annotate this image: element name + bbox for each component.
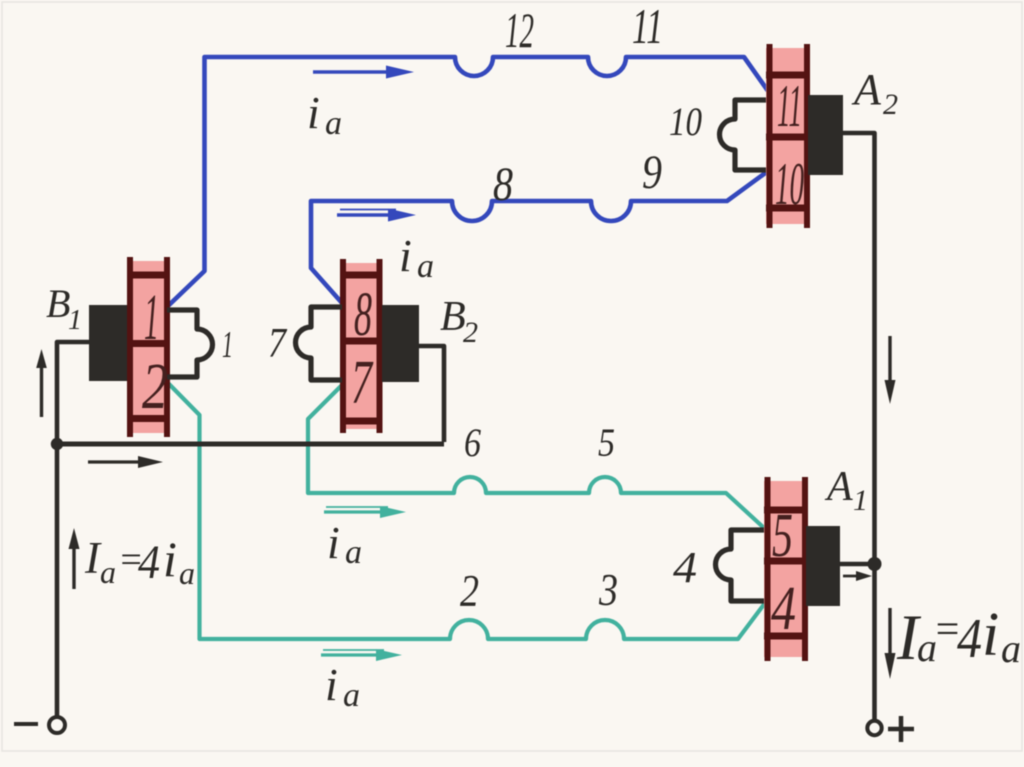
svg-text:4: 4 — [771, 575, 796, 643]
brush B2 — [382, 305, 419, 382]
label 11 — [632, 0, 663, 54]
svg-text:9: 9 — [642, 146, 662, 199]
arrow ia on wire 8 — [337, 209, 416, 222]
label 2 — [460, 566, 479, 616]
svg-text:5: 5 — [598, 420, 615, 465]
svg-text:6: 6 — [464, 420, 481, 465]
coil label 10 — [669, 99, 702, 144]
svg-text:i: i — [327, 517, 340, 568]
coil bracket 7 (left of B2) — [296, 307, 343, 380]
svg-text:A: A — [824, 464, 853, 510]
svg-text:i: i — [982, 601, 999, 669]
svg-text:4: 4 — [138, 536, 160, 589]
wire: black lead from brush B2 to bus — [419, 346, 444, 442]
arrow ia on wire 2 — [321, 649, 402, 661]
wire: blue winding coil 12-11 from segment 1 to segment 11 — [169, 57, 768, 305]
brush A1 — [806, 526, 840, 606]
label 3 — [598, 565, 618, 615]
svg-text:2: 2 — [460, 566, 479, 616]
arrow right on bus — [88, 456, 163, 468]
svg-text:1: 1 — [68, 305, 82, 336]
arrow down on right vertical (upper) — [885, 336, 896, 404]
brush A2 — [808, 95, 843, 175]
label A2 — [851, 65, 898, 121]
svg-text:i: i — [399, 230, 412, 281]
label A1 — [824, 464, 868, 517]
junction node at bus below B1 — [51, 438, 63, 450]
arrow down for Ia=4ia (right) — [885, 608, 896, 679]
junction node on right vertical at A1 — [868, 557, 882, 571]
coil bracket 4 (left of A1) — [716, 530, 765, 601]
positive terminal — [867, 721, 881, 735]
arrow up beside B1 lead — [36, 349, 47, 417]
wire: teal winding coil 6-5 from segment 7 to segment 5 — [308, 385, 763, 527]
commutator B2 segments strip — [340, 259, 382, 433]
svg-text:11: 11 — [632, 0, 663, 54]
label minus — [14, 722, 38, 726]
svg-text:a: a — [100, 554, 116, 590]
label ia (top) — [307, 87, 342, 142]
svg-text:2: 2 — [142, 350, 168, 423]
label B2 — [440, 294, 478, 349]
svg-text:4: 4 — [673, 543, 697, 592]
arrow right at A1 lead — [843, 571, 872, 581]
arrow ia on wire 12 — [313, 66, 414, 79]
svg-text:A: A — [851, 65, 882, 114]
svg-text:5: 5 — [772, 502, 793, 570]
arrow ia on wire 6 — [324, 506, 406, 518]
svg-text:12: 12 — [505, 2, 534, 58]
svg-text:1: 1 — [144, 281, 159, 354]
svg-text:a: a — [345, 534, 362, 571]
label Ia=4ia (left) — [84, 531, 195, 591]
svg-text:a: a — [343, 677, 360, 714]
wire: black lead from brush A2 down to positive terminal — [843, 133, 875, 721]
label 9 — [642, 146, 662, 199]
label Ia=4ia (right) — [896, 601, 1021, 674]
svg-text:2: 2 — [463, 316, 478, 349]
svg-text:11: 11 — [777, 73, 802, 139]
label ia (second) — [399, 230, 434, 285]
svg-text:a: a — [179, 555, 195, 591]
coil label 4 — [673, 543, 697, 592]
brush B1 — [89, 305, 127, 381]
segment number 11 (A2 top) — [777, 73, 802, 139]
segment number 8 (B2 top) — [354, 281, 372, 349]
commutator A1 segments strip — [764, 477, 808, 661]
svg-text:7: 7 — [268, 321, 288, 367]
label 5 — [598, 420, 615, 465]
wire: black lead from brush B1 to negative terminal — [57, 342, 90, 716]
wire: black bottom bus — [55, 442, 444, 447]
svg-text:B: B — [440, 294, 466, 340]
svg-text:8: 8 — [354, 281, 372, 349]
coil label 1 — [222, 324, 233, 366]
label 6 — [464, 420, 481, 465]
svg-text:1: 1 — [222, 324, 233, 366]
segment number 10 (A2 bottom) — [775, 151, 804, 217]
coil label 7 — [268, 321, 288, 367]
svg-text:2: 2 — [883, 88, 898, 121]
svg-text:i: i — [163, 531, 177, 587]
svg-text:i: i — [325, 659, 338, 710]
svg-text:8: 8 — [493, 158, 513, 211]
label ia (fourth) — [325, 659, 360, 714]
svg-text:i: i — [307, 87, 320, 138]
segment number 2 (B1 bottom) — [142, 350, 168, 423]
coil bracket 10 (left of A2) — [720, 100, 766, 170]
segment number 7 (B2 bottom) — [351, 349, 374, 417]
arrow up for Ia=4ia (left) — [69, 528, 80, 589]
svg-text:10: 10 — [775, 151, 804, 217]
svg-text:a: a — [1001, 626, 1021, 671]
wire: teal winding coil 2-3 from segment 2 to segment 4 — [169, 384, 765, 639]
segment number 5 (A1 top) — [772, 502, 793, 570]
label 12 — [505, 2, 534, 58]
svg-text:3: 3 — [598, 565, 618, 615]
svg-text:a: a — [417, 248, 434, 285]
label plus — [888, 716, 914, 742]
label ia (third) — [327, 517, 362, 571]
svg-text:4: 4 — [957, 608, 982, 670]
svg-text:10: 10 — [669, 99, 702, 144]
commutator A2 segments strip — [766, 44, 810, 228]
wire: blue winding coil 8-9 from segment 8 to segment 10 — [311, 171, 768, 303]
label B1 — [46, 281, 82, 336]
svg-text:a: a — [325, 105, 342, 142]
label 8 — [493, 158, 513, 211]
commutator B1 segments strip — [127, 257, 170, 437]
coil bracket 1 (right of B1) — [167, 310, 212, 377]
svg-text:B: B — [46, 281, 70, 326]
wire: black lead from brush A1 to junction — [840, 562, 873, 567]
negative terminal — [49, 717, 65, 733]
segment number 1 (B1 top) — [144, 281, 159, 354]
svg-text:1: 1 — [853, 484, 868, 517]
svg-text:7: 7 — [351, 349, 374, 417]
segment number 4 (A1 bottom) — [771, 575, 796, 643]
